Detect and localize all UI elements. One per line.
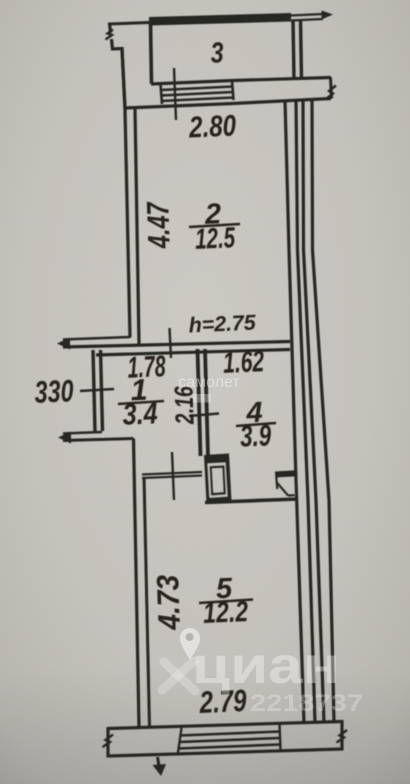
- underline room4: [236, 423, 276, 426]
- balcony right wall line 1: [293, 20, 294, 79]
- underline room1: [118, 401, 164, 404]
- left wall inner line: [135, 109, 139, 344]
- door tick room2: [170, 328, 172, 358]
- bottom hatch line 1: [180, 732, 280, 736]
- sink diagonal: [277, 483, 288, 496]
- break mark left parapet: [106, 30, 114, 40]
- entrance wall line 2: [101, 350, 103, 431]
- cian pin hole: [186, 633, 194, 641]
- window tick: [174, 68, 176, 120]
- threshold line 1: [142, 472, 202, 475]
- svg-text:самолет: самолет: [178, 374, 240, 391]
- entrance door tick: [80, 389, 114, 391]
- bottom hatch line 2: [179, 738, 280, 742]
- band right cap: [331, 78, 332, 99]
- wall line C: [303, 100, 324, 723]
- svg-text:330: 330: [34, 373, 74, 410]
- band right cap: [340, 720, 343, 751]
- svg-text:2.16: 2.16: [168, 385, 199, 425]
- band top line: [151, 78, 331, 85]
- sink top bar: [275, 470, 297, 477]
- cian X mark: [162, 661, 195, 691]
- door leaf tick: [172, 452, 174, 500]
- balcony right wall line 2: [301, 20, 302, 79]
- bathroom wall line 2: [205, 349, 208, 456]
- svg-text:3.9: 3.9: [239, 419, 272, 453]
- wall line B: [296, 100, 315, 723]
- long wall line U2: [63, 342, 290, 348]
- svg-text:2218737: 2218737: [250, 690, 363, 717]
- band right break: [337, 730, 348, 743]
- wall line A: [285, 100, 304, 723]
- band left cap: [106, 727, 109, 758]
- room5 wall outer: [134, 439, 140, 728]
- svg-text:h=2.75: h=2.75: [188, 311, 257, 338]
- upper arrow line U1: [63, 337, 130, 340]
- band top line: [108, 722, 342, 729]
- underline room2: [189, 224, 240, 227]
- wall line U3: [96, 350, 290, 356]
- bathroom door tick: [189, 414, 219, 417]
- svg-text:4.73: 4.73: [150, 574, 187, 631]
- sink bottom edge: [288, 494, 295, 496]
- svg-text:3.4: 3.4: [122, 397, 159, 432]
- balcony left inner wall: [151, 23, 152, 84]
- svg-text:12.5: 12.5: [194, 222, 236, 256]
- samolet badge: [193, 394, 211, 403]
- entry arrow stem: [158, 757, 160, 769]
- lower arrow line B2: [63, 439, 134, 441]
- svg-text:3: 3: [210, 37, 224, 70]
- hatch right edge: [232, 81, 234, 101]
- band right break mark: [326, 86, 336, 100]
- underline room5: [199, 600, 253, 604]
- lower arrow line B1: [63, 432, 102, 434]
- svg-text:2.80: 2.80: [188, 109, 237, 144]
- cian pin: [180, 628, 200, 660]
- wall line D: [312, 100, 334, 723]
- balcony slab thick bar: [149, 13, 291, 26]
- threshold line 2: [142, 476, 202, 479]
- room5 wall inner: [144, 477, 150, 727]
- svg-text:циан: циан: [192, 637, 340, 695]
- bottom hatch right edge: [280, 724, 281, 750]
- balcony top-left thin line: [108, 23, 150, 25]
- slab arrow right: [322, 11, 334, 20]
- entry arrow head: [153, 764, 167, 776]
- svg-text:4.47: 4.47: [140, 200, 177, 249]
- band bottom line: [125, 99, 331, 109]
- window hatch line 2: [161, 92, 233, 96]
- window hatch line 1: [161, 87, 233, 91]
- hatch left edge: [161, 84, 163, 104]
- arrow head bottom-left: [58, 432, 71, 444]
- left wall outer line: [122, 49, 130, 338]
- bottom hatch left edge: [178, 728, 182, 753]
- svg-text:12.2: 12.2: [202, 596, 248, 630]
- band bottom line: [108, 749, 342, 756]
- arrow head top-left: [57, 338, 70, 350]
- bottom hatch line 3: [179, 745, 280, 749]
- entrance wall line 1: [93, 350, 95, 431]
- window hatch line 3: [161, 98, 233, 102]
- band left break: [103, 735, 114, 748]
- bathroom wall line 1: [198, 349, 201, 456]
- left parapet outline lower: [112, 39, 126, 108]
- slab continuation double line right: [291, 14, 323, 16]
- left parapet outline upper: [110, 23, 111, 33]
- sink left edge: [276, 477, 277, 489]
